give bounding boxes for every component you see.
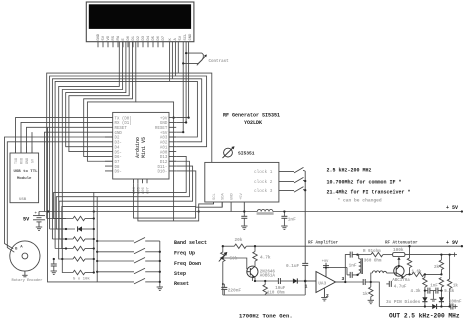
wire 1k column [449,255,451,279]
wire reset row to reset switch [48,127,135,282]
right pin stubs [169,118,176,171]
wire arduino A04 to SI5351 SDA [134,183,223,218]
diode row2 [50,228,75,230]
wire LCD data pin 1 to ladder [59,42,120,259]
svg-text:AOB51A: AOB51A [260,274,276,278]
wire 2k column [440,255,442,260]
svg-text:D6: D6 [157,35,161,40]
svg-text:RF Generator SI5351: RF Generator SI5351 [223,112,280,118]
svg-text:UA3: UA3 [318,281,326,286]
svg-text:1nF: 1nF [430,284,438,288]
svg-text:2.5 kHz-200 MHz: 2.5 kHz-200 MHz [327,167,372,173]
1k to ground [370,282,372,287]
svg-text:Step: Step [174,271,186,277]
svg-text:360 Ohm: 360 Ohm [364,259,382,264]
svg-text:5 x 10k: 5 x 10k [73,277,90,282]
oscillator symbol X1 SI5351 [223,148,234,159]
transistor BC170 [394,266,404,277]
svg-text:Freq Down: Freq Down [174,261,201,267]
svg-text:10uF: 10uF [275,287,286,291]
svg-text:GND: GND [115,132,123,136]
wire bundle outer 2: ladder row2 / arduino A01 [50,76,207,229]
cap 4.7uF [389,281,391,287]
svg-text:A00: A00 [160,151,168,155]
resistor row4 [73,246,85,250]
svg-text:2: 2 [326,293,329,299]
svg-text:+9V: +9V [160,117,168,121]
wire LCD data pin 4 to arduino D5 [69,42,129,152]
junction dots tone gen [222,245,267,285]
wire arduino D11 return to ladder [59,166,193,239]
svg-text:RXD: RXD [20,158,24,164]
svg-text:A07: A07 [147,187,151,194]
svg-text:Band select: Band select [174,240,207,246]
wire arduino D3 to encoder [7,142,105,252]
vertical coil with core [359,259,361,274]
wire LCD backlight column to +9V row [176,42,188,118]
svg-text:100k: 100k [393,248,404,253]
pot 50k [221,252,225,262]
svg-text:clock 2: clock 2 [254,180,273,185]
svg-text:Reset: Reset [174,281,189,287]
PIN diode 2 [439,297,444,301]
signal on through cap to horizontal coil [345,281,363,283]
resistor 5.4k [439,278,443,288]
svg-text:D1: D1 [132,35,136,40]
svg-text:10.700Mhz for common IF *: 10.700Mhz for common IF * [327,179,402,185]
USB module pin labels [15,158,36,164]
LCD pin stubs [98,42,163,48]
switch freq up [97,251,134,253]
pot 100k [393,253,405,257]
svg-text:YO2LDK: YO2LDK [244,120,262,126]
svg-text:2k: 2k [434,265,440,270]
resistor row3 [73,237,85,241]
svg-text:1nF: 1nF [288,218,296,223]
switch bus [159,241,161,287]
svg-text:RX (D1): RX (D1) [115,121,132,126]
switch blades on clocks [294,167,304,173]
svg-text:+ 5V: + 5V [446,205,458,211]
220nF cap [223,284,225,287]
svg-text:50k: 50k [230,257,238,262]
arduino right pin labels [155,117,168,174]
wire pot wiper to transistor collector [398,259,400,266]
svg-text:20k: 20k [235,238,243,243]
signal path with 10uF cap [258,280,278,282]
svg-text:A01: A01 [160,146,168,150]
resistor 1.6k horizontal [412,272,424,276]
svg-text:GND: GND [189,33,193,41]
wire 5V rail [39,211,257,213]
svg-text:USB to TTL: USB to TTL [14,170,39,174]
svg-text:1k: 1k [453,284,459,289]
bottom pin stubs [214,202,245,212]
wire bundle outer 1: ladder row1 / SI5351 top [47,73,212,218]
svg-text:GND: GND [160,122,168,126]
capacitor C1 filter [244,212,284,227]
svg-text:Rotary Encoder: Rotary Encoder [12,278,43,283]
ground filter C1 [241,226,247,229]
svg-text:3: 3 [342,276,345,282]
SI5351 pin labels SCL SDA GND +5V [213,192,244,200]
wire 1.6k row [424,273,441,275]
diode to node 1 [293,278,297,283]
wire arduino TX to USB TXD [16,118,106,147]
50k pot [222,246,224,252]
svg-text:SDA: SDA [222,192,226,200]
wire top attenuator line with R 91ohm [358,254,371,256]
rotary encoder ENC1 [10,241,40,277]
bottom bus [223,294,305,296]
svg-text:5V: 5V [23,217,30,223]
wire bottom bus [379,306,432,308]
resistor 110 ohm [263,285,267,295]
svg-text:21.4Mhz for FI transceiver *: 21.4Mhz for FI transceiver * [327,190,411,196]
resistor row6 [73,270,85,274]
svg-text:D0: D0 [127,35,131,40]
svg-text:4.3k: 4.3k [411,289,422,294]
wire 4.3k column [424,274,426,277]
wire arduino A05 to SI5351 SCL [138,183,214,221]
bottom pin stubs [134,179,148,183]
wire emitter to row [404,274,412,277]
svg-text:OUT 2.5 kHz-200 MHz: OUT 2.5 kHz-200 MHz [389,312,460,319]
USB to TTL module U2 [10,132,39,203]
svg-text:Contrast: Contrast [209,60,230,64]
cap 220nF [221,287,227,289]
svg-text:R 91ohm: R 91ohm [363,249,381,254]
resistor 2k [439,260,443,270]
switch freq down [97,260,134,262]
svg-text:RESET: RESET [115,127,128,131]
svg-text:RF Amplifier: RF Amplifier [308,241,339,246]
SI5351 clock output labels [254,170,273,194]
arduino bottom pin labels A04-A07 [133,186,151,194]
junction dots switch bus [159,251,161,283]
4.7k [254,246,256,251]
resistor R 91ohm [371,252,383,256]
svg-text:D3: D3 [142,35,146,40]
contrast pot [183,58,203,64]
resistor row1 [47,218,73,220]
PIN diode 1 [422,297,427,301]
svg-text:RS: RS [112,35,116,40]
resistor 4.7k [253,252,257,262]
svg-text:D4: D4 [147,35,151,40]
resistor R row1 [73,216,85,220]
110 ohm [264,281,266,285]
switch band select [97,240,134,242]
svg-text:USB: USB [19,198,27,202]
svg-text:3x PIN Diodes: 3x PIN Diodes [386,300,421,305]
svg-text:220nF: 220nF [228,288,242,293]
LCD black screen [89,4,191,29]
wire arduino D13 return to ladder [54,156,187,218]
wire 1.6k vertical from rail [409,246,411,258]
wire arduino D12 return to ladder [56,161,189,229]
svg-text:clock 3: clock 3 [254,189,273,194]
svg-text:SCL: SCL [213,192,217,200]
capacitor C2 1nF [281,216,287,218]
svg-text:VO: VO [107,35,111,40]
wire USB 5V pin up to arduino GND row [31,132,33,146]
wire bundle inner line to SDA route [136,102,174,221]
op-amp UA3 [305,263,347,298]
bus lines [93,192,95,272]
wire arduino RX to USB RXD [21,122,105,146]
ground battery [36,227,42,230]
svg-text:D2: D2 [115,137,120,141]
resistor row5 [73,257,85,261]
resistor row4 [55,248,73,250]
9V rail [223,245,235,247]
switch reset [134,278,145,284]
LCD module outline [86,2,194,42]
wire arduino RESET to USB DTR [27,127,106,146]
svg-text:D5: D5 [152,35,156,40]
svg-text:SI5351: SI5351 [238,151,255,157]
wire 1nF cap row [425,290,428,292]
capacitor 0.1uF [302,263,308,265]
svg-text:4.7uF: 4.7uF [394,286,407,290]
svg-text:1k: 1k [363,292,369,297]
wire bundle outer 3: ladder row3 / arduino A02 [52,79,201,239]
wire bundle outer 4: ladder row4 / arduino A03 [55,81,197,248]
wire LCD data pin 6 to arduino D7 [87,42,135,162]
svg-text:1.6k: 1.6k [412,269,423,274]
coupling caps + transformer [345,255,393,301]
junction dots ladder [61,217,98,273]
junction dots clock bus [304,180,306,192]
svg-text:5V: 5V [179,35,183,40]
svg-text:D11-: D11- [157,166,167,170]
caps 1nF [428,288,430,294]
wire LCD data pin 3 to arduino D4 [66,42,126,147]
switch labels [174,240,207,287]
svg-text:A06: A06 [142,186,146,194]
ground filter C2 [281,226,287,229]
resistor 20k [234,244,246,248]
junction dots 5V rail [243,210,285,212]
junction dots LCD area [172,52,199,213]
resistor 4.3k [423,278,427,288]
LCD pin labels (rotated) [97,33,193,41]
svg-text:clock 1: clock 1 [254,170,273,175]
wire LCD data pin 5 to arduino D6 [84,42,133,157]
svg-text:D7: D7 [162,36,166,41]
resistor row6 [85,272,94,274]
svg-text:B: B [15,247,18,251]
svg-text:4.7k: 4.7k [260,256,271,261]
svg-text:D2: D2 [137,35,141,40]
svg-text:1nF: 1nF [349,264,357,269]
wire 5.4k column [440,277,442,279]
svg-text:D5-: D5- [115,151,122,155]
switch step [97,271,134,273]
svg-text:TXD: TXD [15,158,19,164]
svg-text:TX (D0): TX (D0) [115,116,132,121]
svg-text:* can be changed: * can be changed [338,198,382,204]
svg-text:D3-: D3- [115,142,122,146]
svg-text:GND: GND [26,158,30,164]
node 1 [304,280,307,283]
svg-text:GND: GND [97,33,101,41]
wire LCD GND column to contrast [176,42,186,123]
cap 100nF [451,304,453,310]
SI5351 module U3 body [205,162,305,281]
svg-text:Module: Module [17,176,32,181]
wire LCD data pin 2 to ladder [62,42,122,273]
svg-text:1: 1 [305,283,308,289]
transistor connections [223,258,247,269]
svg-text:D7: D7 [115,161,120,165]
wire arduino GND down [45,132,106,211]
arduino left pin labels [115,116,132,174]
PIN diode 3 [432,304,436,309]
svg-text:RESET: RESET [155,127,168,131]
resistor 1.6k vertical [407,258,411,268]
svg-text:+ 9V: + 9V [446,240,458,246]
svg-text:D12: D12 [160,161,168,165]
wire arduino D10 return to ladder [62,171,196,249]
inductor L1 filter [257,209,273,211]
svg-text:+9V: +9V [322,260,329,264]
svg-text:Mini V5: Mini V5 [141,137,147,158]
svg-text:D6-: D6- [115,156,122,160]
svg-text:100nF: 100nF [449,301,462,305]
output connector bottom [454,304,456,308]
svg-text:D13: D13 [160,156,168,160]
transistor 2N2646 [247,266,258,277]
wire base [394,272,397,274]
resistor 1k right [447,279,451,289]
svg-text:D9-: D9- [115,171,122,175]
svg-text:A02: A02 [160,142,168,146]
wire LCD 5V column down to arduino [176,42,183,132]
svg-text:ABC170a: ABC170a [392,279,410,283]
left pin stubs [105,118,113,171]
svg-text:SCL: SCL [184,33,188,41]
svg-text:A03: A03 [160,137,168,141]
diode row2 (pointing left) [78,226,82,231]
wire LCD control pin columns dropping to bundle [169,42,171,82]
svg-text:Freq Up: Freq Up [174,250,195,256]
svg-text:5.4k: 5.4k [444,289,455,294]
output connector top [454,252,456,256]
resistor row5 [85,258,94,260]
svg-text:+5V: +5V [240,192,244,200]
svg-text:A: A [20,245,23,249]
resistor row3 [52,238,73,240]
cap 10uF [278,278,280,284]
svg-text:5V: 5V [102,35,106,40]
capacitor encoder debounce [53,259,55,271]
arduino U1 Mini V5 body and pins [105,112,176,183]
svg-text:RF Attenuator: RF Attenuator [385,242,418,246]
wire arduino D2 to encoder [5,137,106,249]
clock bus down to RF amp [304,171,306,263]
svg-text:D10-: D10- [157,171,167,175]
svg-text:D8: D8 [115,166,120,170]
svg-text:1700Hz Tone Gen.: 1700Hz Tone Gen. [239,313,293,320]
svg-text:D4: D4 [115,146,120,150]
svg-text:GND: GND [231,192,235,200]
svg-text:0.1uF: 0.1uF [286,264,300,269]
svg-text:+5V: +5V [160,132,168,136]
clock pin stubs [279,171,294,190]
svg-text:RW: RW [117,35,121,40]
wire top line to output [405,254,455,256]
